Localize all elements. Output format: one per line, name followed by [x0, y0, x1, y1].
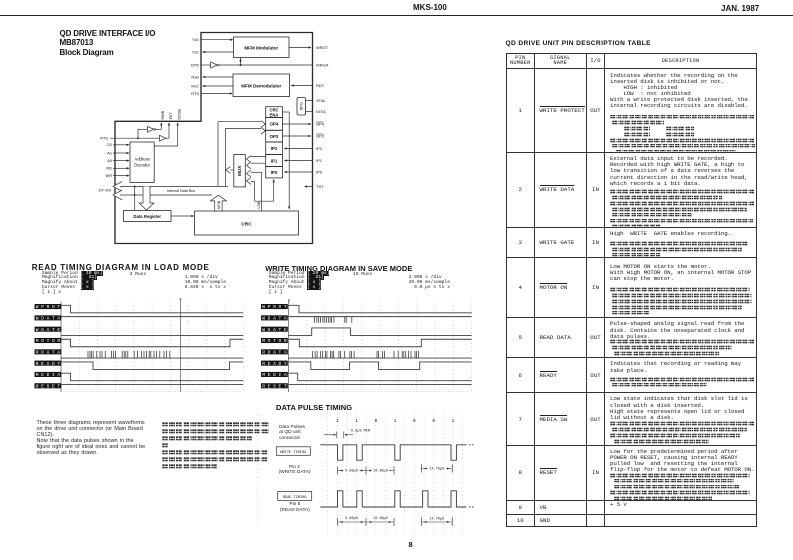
pin TxD wire: [192, 37, 233, 42]
wire CRC ENA to CRC: [282, 112, 290, 210]
block MUX: [234, 155, 246, 187]
bus arrow into Data Register: [139, 186, 154, 210]
pin DTR wire with inverter buffer: [191, 62, 313, 68]
bus arrow MUX input B: [247, 162, 266, 169]
svg-text:A1: A1: [107, 150, 112, 155]
svg-text:MFM Modulator: MFM Modulator: [244, 46, 278, 51]
bus arrow MUX input A: [247, 156, 266, 163]
block MFM Demodulator: [233, 74, 290, 97]
write plot left boundary: [288, 302, 290, 393]
node INIT vertical label: [169, 112, 173, 120]
write label MOTOR: [261, 338, 288, 344]
svg-text:A0: A0: [107, 158, 113, 163]
svg-text:19.68μS: 19.68μS: [373, 517, 388, 521]
svg-text:RTS: RTS: [191, 91, 199, 96]
svg-text:TxC: TxC: [192, 50, 199, 55]
read waveform WGATE: [61, 334, 243, 336]
wire bus riser to OP4: [218, 121, 265, 187]
pin WR wire: [106, 173, 130, 178]
svg-text:LSB: LSB: [257, 201, 261, 209]
write waveform WDATA: [289, 316, 472, 318]
svg-text:MUX: MUX: [237, 165, 242, 176]
write waveform READY: [289, 362, 472, 370]
block Address Decoder: [130, 142, 154, 183]
svg-text:DDSB: DDSB: [178, 108, 182, 119]
read label READY: [35, 361, 62, 367]
pin IP1 wire: [284, 158, 323, 163]
pin IP2 wire: [284, 146, 323, 151]
svg-text:1: 1: [355, 419, 358, 424]
write timing grid: [289, 302, 472, 393]
block Data Register: [124, 211, 172, 222]
write timing title: [265, 264, 412, 273]
pin IP0 wire: [284, 170, 323, 175]
write label WPROT: [261, 304, 288, 310]
svg-text:DTR: DTR: [191, 63, 199, 68]
outer box IC boundary MB87013: [115, 33, 313, 244]
read waveform RESET: [61, 384, 243, 386]
svg-text:0: 0: [432, 419, 435, 424]
wire LSB to IP0: [255, 179, 275, 201]
pin RDT wire: [291, 83, 325, 88]
write label WDATA: [261, 315, 288, 321]
write waveform MOTOR: [289, 339, 472, 347]
pin RD wire: [106, 166, 129, 171]
svg-text:IP0: IP0: [316, 170, 323, 175]
block OP3 register: [266, 130, 283, 142]
pin RTS wire to demodulator: [191, 91, 233, 96]
read marker x: [179, 298, 182, 302]
svg-text:0.5μS MIN: 0.5μS MIN: [351, 430, 370, 434]
svg-text:WRGA: WRGA: [316, 63, 329, 68]
svg-text:9.96μS: 9.96μS: [345, 469, 358, 473]
write label WGATE: [261, 327, 288, 333]
svg-text:TST: TST: [316, 184, 324, 189]
pin RxC wire: [191, 84, 233, 89]
write label RESET: [261, 383, 288, 389]
read timing grid: [61, 302, 243, 393]
read waveform RDATA: [61, 357, 243, 359]
data pulse bit values: [336, 419, 455, 424]
read label RDATA: [35, 349, 62, 355]
svg-text:D7–D0: D7–D0: [99, 187, 112, 192]
read timing title: [32, 263, 210, 272]
svg-text:IP1: IP1: [271, 158, 278, 163]
svg-text:9.96μS: 9.96μS: [345, 517, 358, 521]
block CRC ENA register: [266, 107, 283, 118]
buffer B2: [160, 122, 171, 141]
english note paragraph: [37, 421, 146, 457]
svg-text:IP0: IP0: [271, 170, 278, 175]
pin EXTA wire: [306, 109, 326, 114]
node LSB label: [257, 201, 261, 209]
read timing label box: [278, 491, 312, 500]
data pulses annotation text: [279, 425, 305, 442]
block IP0 register: [266, 167, 283, 178]
svg-text:MSB: MSB: [217, 200, 221, 209]
svg-text:RTS: RTS: [100, 135, 108, 140]
pin A1 wire: [107, 150, 129, 155]
read waveform WDATA: [61, 316, 243, 318]
pin description table: [506, 53, 757, 527]
write data waveform pin2: [320, 445, 473, 460]
svg-text:OP3: OP3: [316, 134, 325, 139]
header rule: [0, 15, 793, 16]
write waveform WGATE: [289, 328, 472, 336]
write measurement 14.76: [421, 464, 452, 473]
write measurement spans: [337, 467, 394, 475]
read plot left boundary: [60, 302, 62, 393]
pulse width 0.5us annotation: [324, 430, 370, 439]
svg-text:INIT: INIT: [169, 112, 173, 120]
block IP1 register: [266, 155, 283, 167]
svg-text:CRC: CRC: [241, 221, 252, 227]
svg-text:0: 0: [375, 419, 378, 424]
write waveform WPROT: [289, 305, 472, 313]
svg-text:TxD: TxD: [192, 37, 199, 42]
svg-text:1: 1: [336, 419, 339, 424]
pin WROT wire: [289, 45, 329, 50]
svg-text:WRITE TIMING: WRITE TIMING: [280, 451, 306, 455]
pin5 read data caption: [273, 502, 316, 513]
write marker ox: [288, 300, 291, 304]
read label MOTOR: [35, 338, 62, 344]
svg-text:14.76μS: 14.76μS: [429, 518, 444, 522]
node DDSB vertical label: [178, 108, 182, 119]
data pulse dotted grid: [257, 413, 462, 533]
pin TxC wire: [192, 50, 234, 55]
read waveform MEDIA: [61, 373, 243, 381]
bus arrow MUX output left: [226, 167, 234, 174]
svg-text:0: 0: [413, 419, 416, 424]
block OP4 register: [266, 118, 283, 131]
block DPG: [297, 98, 306, 116]
read waveform MOTOR: [61, 339, 243, 347]
svg-text:XTAL: XTAL: [316, 98, 326, 103]
pin TST wire: [304, 184, 324, 189]
svg-text:Data Register: Data Register: [133, 214, 161, 219]
wire DDSB from address decoder: [154, 122, 179, 146]
read label WDATA: [35, 315, 62, 321]
diagram heading: [60, 29, 156, 57]
svg-text:Internal Data Bus: Internal Data Bus: [167, 189, 196, 193]
bus arrow MSB into data bus: [210, 195, 226, 211]
read waveform WPROT: [61, 305, 243, 313]
svg-text:RxC: RxC: [191, 84, 199, 89]
bus arrow MUX input D: [247, 178, 255, 202]
svg-text:OP4: OP4: [270, 122, 279, 127]
svg-text:1: 1: [452, 419, 455, 424]
pin D7-D0 bus arrow: [99, 182, 122, 200]
header MKS-100: [413, 3, 447, 12]
header JAN. 1987: [721, 4, 759, 13]
block IP2 register: [266, 142, 283, 155]
pin2 write data caption: [273, 465, 317, 476]
read measurement spans: [337, 515, 394, 527]
svg-text:19.68μS: 19.68μS: [373, 469, 388, 473]
read label WGATE: [35, 327, 62, 333]
wire internal data bus line1: [120, 186, 228, 193]
block MFM Modulator: [234, 37, 290, 58]
write waveform RDATA: [289, 357, 472, 359]
svg-text:RWB: RWB: [161, 110, 165, 119]
svg-text:Address: Address: [134, 157, 149, 162]
write waveform MEDIA: [289, 373, 472, 381]
svg-text:x: x: [179, 298, 182, 302]
svg-text:RxD: RxD: [191, 75, 199, 80]
node RWB vertical label: [161, 110, 165, 119]
read label WPROT: [35, 304, 62, 310]
read data waveform pin5: [320, 491, 473, 507]
write data pulses: [313, 317, 419, 358]
svg-text:IP1: IP1: [316, 158, 323, 163]
pin XTAL wire: [306, 98, 327, 103]
svg-text:READ TIMING: READ TIMING: [283, 496, 307, 500]
svg-text:WR: WR: [106, 173, 113, 178]
svg-text:8: 8: [288, 300, 291, 304]
pin OP3 wire: [282, 134, 324, 139]
read measurement 14.76: [421, 517, 452, 526]
svg-text:OP4: OP4: [316, 122, 325, 127]
pin RxD wire: [191, 75, 233, 80]
data pulse timing title: [276, 403, 352, 412]
write label RDATA: [261, 349, 288, 355]
write label READY: [261, 361, 288, 367]
svg-text:RDT: RDT: [316, 83, 325, 88]
pin RTS left wire with junction: [100, 135, 159, 140]
wire Data Register to CRC: [171, 215, 194, 217]
block CRC: [195, 211, 299, 235]
wire bus to data register with junctions: [134, 186, 136, 211]
svg-text:14.76μS: 14.76μS: [429, 467, 444, 471]
read waveform READY: [61, 362, 243, 370]
japanese note paragraph: [162, 422, 269, 472]
svg-text:CS: CS: [107, 142, 113, 147]
svg-text:ENA: ENA: [270, 112, 279, 117]
wire modulator to WRGA junction: [239, 58, 241, 67]
svg-text:IP2: IP2: [271, 146, 278, 151]
read label MEDIA: [35, 372, 62, 378]
svg-text:1: 1: [394, 419, 397, 424]
write waveform RESET: [289, 384, 472, 386]
buffer B1 inverter: [138, 122, 162, 138]
svg-text:DPG: DPG: [300, 102, 304, 110]
svg-text:WROT: WROT: [316, 45, 329, 50]
read data pulses: [88, 351, 170, 358]
svg-text:IP2: IP2: [316, 146, 323, 151]
wire bus riser to OP3: [225, 127, 265, 186]
pin WRGA label: [316, 63, 329, 68]
bus arrow MUX input C from LSB line: [247, 170, 262, 211]
table title: [506, 40, 651, 47]
svg-text:MFM Demodulator: MFM Demodulator: [241, 83, 281, 88]
svg-text:Decoder: Decoder: [134, 163, 150, 168]
pin OP4 wire: [282, 122, 324, 127]
read cursor line: [180, 299, 182, 392]
pin A0 wire: [107, 158, 129, 163]
read label RESET: [35, 383, 62, 389]
wire internal data bus line2: [120, 194, 212, 196]
svg-text:OP3: OP3: [270, 134, 279, 139]
write timing label box: [276, 447, 310, 456]
write label MEDIA: [261, 372, 288, 378]
page number: [409, 540, 413, 549]
svg-text:ExTA: ExTA: [316, 109, 326, 114]
pin CS wire: [107, 142, 130, 147]
svg-text:RD: RD: [106, 166, 112, 171]
